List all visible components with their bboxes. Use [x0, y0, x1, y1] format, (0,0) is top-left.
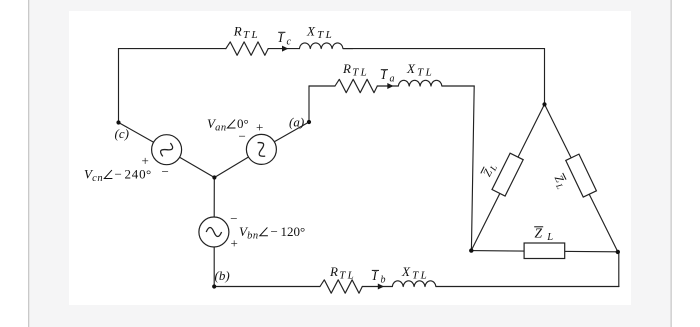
delta side left [471, 104, 544, 250]
label Vcn angle -240 [84, 167, 151, 185]
impedance box bottom [524, 243, 565, 259]
right rule [671, 0, 672, 327]
wire: line a right segment [442, 85, 474, 87]
impedance box left [492, 153, 523, 196]
source c circle [152, 135, 182, 165]
wire: top right vertical down to delta apex [544, 49, 546, 105]
wire: right vertical down to delta bottom-left [471, 86, 474, 251]
wire: top line left segment [119, 48, 226, 50]
node a dot [307, 120, 311, 124]
wire: branch a upper [274, 122, 309, 142]
svg-text:120°: 120° [281, 224, 306, 239]
node b dot [212, 284, 216, 288]
node delta bottom-left dot [469, 248, 473, 252]
node delta bottom-right dot [616, 250, 620, 254]
arrowhead Ic [282, 46, 288, 52]
wire: branch c lower [180, 157, 215, 177]
resistor RTL line a [335, 79, 377, 92]
svg-text:240°: 240° [125, 167, 152, 182]
node delta apex dot [542, 102, 546, 106]
svg-text:(a): (a) [289, 115, 304, 130]
source b circle [199, 217, 229, 247]
svg-text:+: + [256, 120, 263, 135]
source a sine [254, 140, 269, 158]
wire: node b vertical from N [213, 178, 215, 218]
label Vbn angle -120 [239, 224, 305, 242]
inductor XTL line a [398, 80, 442, 86]
label Ic current [278, 30, 292, 48]
delta side bottom [471, 251, 618, 252]
left rule [28, 0, 29, 327]
svg-text:(b): (b) [215, 268, 230, 283]
resistor RTL top [226, 42, 268, 55]
arrowhead Ia [387, 83, 393, 89]
white canvas [69, 11, 631, 305]
source a circle [246, 134, 276, 164]
label Ib current [372, 268, 386, 286]
source b sine [206, 228, 221, 237]
delta side right [545, 104, 618, 252]
wire+arrow Ib [362, 286, 392, 288]
arrowhead Ib [378, 284, 384, 290]
label Van angle 0 [207, 116, 249, 134]
svg-text:−: − [115, 167, 122, 182]
wire: top line right segment [343, 48, 545, 50]
wire: line a left segment [309, 85, 335, 87]
label Ia current [381, 67, 395, 85]
svg-text:(c): (c) [115, 126, 129, 141]
wire: bottom line left segment [214, 286, 320, 288]
wire: branch c upper [119, 123, 154, 143]
inductor XTL line b [392, 281, 436, 287]
wire: bottom line right segment [436, 286, 619, 288]
wire: node c vertical up [118, 49, 120, 123]
wire: source b to node b [213, 247, 215, 287]
node c dot [116, 120, 120, 124]
resistor RTL line b [320, 280, 362, 293]
svg-text:−: − [271, 224, 278, 239]
inductor XTL top [299, 43, 352, 49]
wire: node a vertical up [308, 86, 310, 122]
wire: branch a lower [214, 157, 248, 178]
svg-text:−: − [230, 211, 237, 226]
label ZL right (rotated) [550, 173, 568, 191]
wire+arrow Ic [268, 48, 299, 50]
wire: right vertical up to delta bottom-right [618, 252, 619, 287]
wire+arrow Ia [377, 85, 398, 87]
source c sine [159, 141, 174, 159]
svg-text:+: + [231, 236, 238, 251]
label ZL bottom [534, 225, 553, 243]
node N dot [212, 175, 216, 179]
svg-text:−: − [239, 129, 246, 144]
label ZL left (rotated) [481, 162, 499, 180]
impedance box right [566, 154, 597, 197]
svg-text:−: − [162, 164, 169, 179]
